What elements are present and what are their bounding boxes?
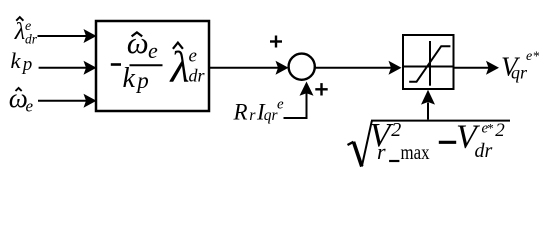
node sqrt limit expression: minus sign — [439, 141, 456, 144]
svg-text:e: e — [148, 38, 158, 63]
limiter vertical axis — [429, 41, 431, 86]
node sqrt limit expression: V_dr^e*2 — [456, 118, 505, 162]
svg-text:ω: ω — [127, 25, 149, 60]
wire input arrow 1 — [38, 29, 97, 43]
svg-text:p: p — [135, 68, 149, 93]
wire sqrt limit to limiter (up arrow) — [421, 90, 435, 120]
svg-text:dr: dr — [25, 32, 38, 47]
svg-text:λ: λ — [169, 43, 190, 92]
value label: omega_e hat numerator — [127, 25, 158, 63]
svg-text:r: r — [249, 107, 256, 124]
summing junction circle — [289, 54, 315, 80]
limiter saturation curve — [409, 46, 450, 82]
svg-text:e: e — [26, 97, 34, 116]
svg-text:e: e — [277, 97, 284, 113]
svg-text:*: * — [487, 121, 494, 136]
svg-text:k: k — [123, 63, 136, 94]
wire summer to limiter block — [315, 61, 401, 75]
wire input arrow 2 — [39, 61, 97, 75]
gain block U1 rectangle — [96, 21, 209, 111]
svg-text:dr: dr — [189, 66, 206, 86]
node R_r I_qr^e label — [233, 97, 285, 125]
svg-text:e: e — [526, 49, 532, 64]
svg-text:k: k — [11, 48, 22, 73]
node plus sign (top input of summer) — [270, 36, 282, 48]
value label: lambda_dr^e hat in block — [169, 43, 206, 92]
value label: k_p denominator — [123, 63, 149, 94]
node sqrt limit expression: V_r_max^2 — [370, 117, 430, 164]
limiter (saturation) block rectangle — [403, 35, 454, 89]
svg-text:R: R — [233, 99, 248, 124]
wire input arrow 3 — [38, 94, 97, 108]
value label: fraction bar — [130, 64, 163, 66]
svg-text:p: p — [21, 54, 33, 75]
wire limiter output — [454, 61, 500, 75]
limiter horizontal axis — [403, 66, 454, 68]
node omega_e input label — [9, 83, 34, 116]
svg-text:e: e — [189, 45, 197, 66]
node k_p input label — [11, 48, 33, 75]
node plus sign (bottom input of summer) — [315, 83, 327, 95]
svg-text:*: * — [533, 49, 540, 64]
node sqrt limit expression: radical sign — [348, 121, 511, 167]
svg-text:2: 2 — [495, 120, 505, 141]
value label: minus sign in block — [111, 63, 121, 66]
svg-text:qr: qr — [511, 63, 528, 83]
svg-text:max: max — [401, 140, 430, 164]
svg-text:2: 2 — [391, 119, 401, 141]
svg-text:r: r — [377, 139, 386, 164]
svg-text:λ: λ — [14, 19, 25, 45]
wire block to summing junction — [209, 61, 289, 75]
node V_qr^e* output label — [501, 49, 540, 83]
wire R_r I_qr^e to summer (horizontal then up with arrow) — [284, 82, 314, 120]
svg-text:dr: dr — [475, 140, 493, 162]
node lambda_dr^e input label — [14, 17, 38, 46]
